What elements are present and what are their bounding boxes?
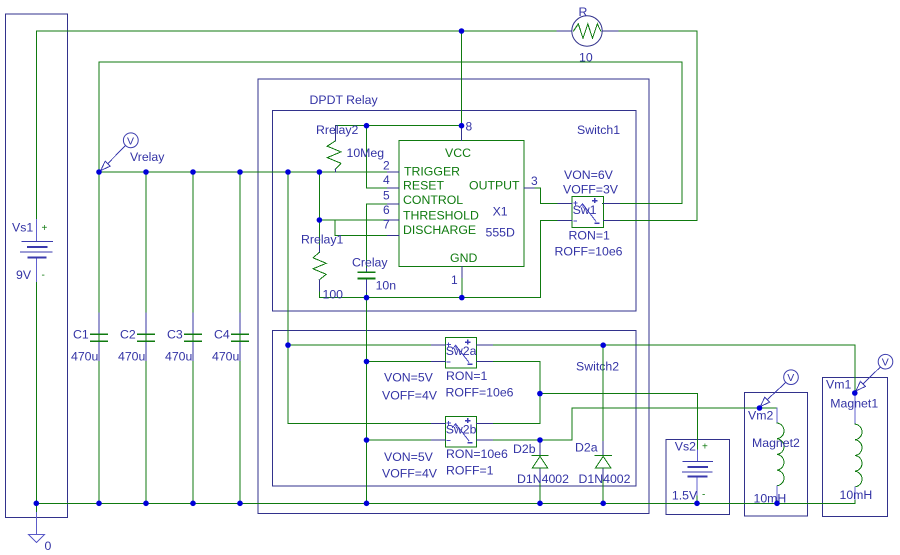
svg-text:ROFF=10e6: ROFF=10e6 xyxy=(446,385,514,399)
wire R right to Sw1 minus xyxy=(618,31,697,220)
wire main ground rail xyxy=(36,502,855,504)
svg-text:ROFF=1: ROFF=1 xyxy=(446,464,494,478)
junction ground D2a xyxy=(600,501,606,507)
svg-text:9V: 9V xyxy=(16,268,32,282)
svg-text:10n: 10n xyxy=(376,279,397,293)
node Vrelay xyxy=(96,169,102,175)
svg-text:GND: GND xyxy=(450,251,477,265)
block box Switch1 xyxy=(272,111,636,312)
junction ground C3 xyxy=(190,501,196,507)
junction ground relay column xyxy=(364,501,370,507)
block box Switch2 xyxy=(272,331,636,487)
svg-text:VCC: VCC xyxy=(445,146,471,160)
svg-text:D2a: D2a xyxy=(575,441,598,455)
svg-text:X1: X1 xyxy=(493,205,508,219)
block box Magnet1 xyxy=(823,378,888,517)
junction VCC reset tie xyxy=(364,123,370,129)
junction ground D2b xyxy=(537,501,543,507)
junction Sw2a input xyxy=(285,342,291,348)
wire output to Sw1 xyxy=(534,188,558,204)
wire C1 branch xyxy=(98,172,100,503)
wire reset tie xyxy=(367,126,388,188)
svg-text:D2b: D2b xyxy=(513,442,536,456)
svg-text:TRIGGER: TRIGGER xyxy=(404,165,460,179)
wire D2b to ground rail xyxy=(539,479,541,503)
capacitor Crelay xyxy=(352,255,396,292)
block box Vs1 xyxy=(6,14,68,518)
wire Vm2 probe to coil xyxy=(760,407,778,409)
wire Sw2a minus down xyxy=(493,362,540,394)
probe Vm2 xyxy=(760,370,798,407)
junction VCC pin8 xyxy=(459,123,465,129)
svg-text:Vs1: Vs1 xyxy=(12,221,33,235)
wire Vs1+ top rail xyxy=(37,31,462,220)
capacitor C4 xyxy=(212,313,248,364)
block box Magnet2 xyxy=(745,393,808,517)
wire node to Vs2 plus xyxy=(540,394,697,450)
wire top rail to R xyxy=(462,30,558,32)
svg-text:D1N4002: D1N4002 xyxy=(579,472,631,486)
svg-text:10Meg: 10Meg xyxy=(347,146,385,160)
block box Vs2 xyxy=(666,440,730,515)
capacitor C3 xyxy=(165,313,201,364)
svg-text:1.5V: 1.5V xyxy=(672,489,698,503)
wire Sw2b control minus xyxy=(367,439,432,441)
wire Sw1 plus feedback to Vrelay rail xyxy=(99,62,682,204)
probe Vm1 xyxy=(856,354,893,390)
svg-text:VOFF=4V: VOFF=4V xyxy=(382,389,438,403)
block box DPDT Relay xyxy=(258,79,649,513)
wire Crelay bottom to main ground xyxy=(366,292,368,504)
svg-text:Crelay: Crelay xyxy=(352,255,388,269)
wire trigger node down to threshold xyxy=(318,172,320,220)
resistor Rrelay2 xyxy=(334,126,336,141)
ground 0 xyxy=(35,503,37,512)
svg-text:R: R xyxy=(579,5,588,19)
inductor Magnet2 xyxy=(748,408,800,506)
svg-text:C1: C1 xyxy=(73,328,89,342)
wire Vs2 bottom xyxy=(696,495,698,503)
junction ground C1 xyxy=(96,501,102,507)
wire D2b node to Magnet2 xyxy=(540,408,760,440)
wire D2a to ground rail xyxy=(602,479,604,503)
junction ground Vs2 xyxy=(694,501,700,507)
svg-text:OUTPUT: OUTPUT xyxy=(469,179,520,193)
wire Magnet2 coil bottom xyxy=(776,500,778,504)
svg-text:THRESHOLD: THRESHOLD xyxy=(403,209,479,223)
node Vm2 xyxy=(757,405,763,411)
junction D2a xyxy=(600,342,606,348)
junction Sw2b minus xyxy=(364,437,370,443)
svg-text:-: - xyxy=(702,490,705,501)
svg-text:100: 100 xyxy=(323,288,344,302)
wire Vrelay rail xyxy=(99,171,387,173)
battery Vs2 xyxy=(672,440,713,503)
switch Sw1 xyxy=(558,197,619,228)
svg-text:8: 8 xyxy=(466,120,473,134)
wire node to Sw2b plus xyxy=(493,394,540,424)
svg-text:VOFF=3V: VOFF=3V xyxy=(563,183,619,197)
svg-text:10mH: 10mH xyxy=(840,488,873,502)
svg-text:Switch1: Switch1 xyxy=(577,123,620,137)
wire Sw2a control minus xyxy=(367,361,432,363)
op-amp U1 555 timer X1 box xyxy=(399,141,524,267)
resistor R xyxy=(557,30,572,32)
svg-text:DISCHARGE: DISCHARGE xyxy=(403,223,476,237)
svg-text:C4: C4 xyxy=(214,328,230,342)
junction top rail / R / pin8 xyxy=(459,28,465,34)
svg-text:+: + xyxy=(702,442,708,453)
battery Vs1 xyxy=(36,220,38,282)
wire Sw2a plus to Magnet1 xyxy=(493,345,855,393)
wire pin1 to rail xyxy=(461,278,463,298)
pin stubs 555 xyxy=(387,126,534,278)
junction ground C2 xyxy=(143,501,149,507)
wire Magnet1 feed xyxy=(854,393,856,396)
svg-text:7: 7 xyxy=(383,218,390,232)
svg-text:10mH: 10mH xyxy=(754,492,787,506)
svg-text:4: 4 xyxy=(383,173,390,187)
svg-text:470u: 470u xyxy=(118,350,146,364)
node Vm1 xyxy=(852,390,858,396)
wire C3 branch xyxy=(192,172,194,503)
junction D2b xyxy=(537,437,543,443)
svg-text:6: 6 xyxy=(383,203,390,217)
svg-text:CONTROL: CONTROL xyxy=(403,193,463,207)
junction ground C4 xyxy=(237,501,243,507)
svg-text:10: 10 xyxy=(579,51,593,65)
wire Sw2a input xyxy=(288,344,431,346)
svg-text:Rrelay1: Rrelay1 xyxy=(301,233,344,247)
svg-text:3: 3 xyxy=(531,174,538,188)
inductor Magnet1 xyxy=(826,378,878,503)
wire D2a branch xyxy=(602,345,604,441)
svg-text:C3: C3 xyxy=(167,328,183,342)
svg-text:VON=6V: VON=6V xyxy=(564,168,614,182)
junction Crelay ground xyxy=(364,295,370,301)
svg-text:+: + xyxy=(42,223,48,234)
diode D2b xyxy=(513,440,569,486)
junction rail Rrelay1 xyxy=(317,169,323,175)
switch Sw2a xyxy=(431,338,492,369)
svg-text:Vrelay: Vrelay xyxy=(130,150,165,164)
junction rail C2 xyxy=(143,169,149,175)
svg-text:-: - xyxy=(42,270,45,281)
wire VCC pin8 net xyxy=(335,125,461,127)
svg-text:Vm2: Vm2 xyxy=(748,409,773,423)
svg-text:Rrelay2: Rrelay2 xyxy=(316,123,359,137)
svg-text:RON=1: RON=1 xyxy=(446,369,488,383)
svg-text:VON=5V: VON=5V xyxy=(384,450,434,464)
svg-text:VON=5V: VON=5V xyxy=(384,371,434,385)
junction Vs2 feed xyxy=(537,391,543,397)
svg-text:1: 1 xyxy=(451,273,458,287)
junction ground Magnet2 xyxy=(774,501,780,507)
wire control to Crelay xyxy=(367,203,388,205)
svg-text:C2: C2 xyxy=(120,328,136,342)
switch Sw2b xyxy=(431,416,492,447)
svg-text:RESET: RESET xyxy=(403,179,444,193)
junction Sw2a minus xyxy=(364,359,370,365)
svg-text:470u: 470u xyxy=(212,350,240,364)
resistor Rrelay1 xyxy=(318,220,320,246)
junction rail to Sw2 inputs xyxy=(285,169,291,175)
wire relay ground rail xyxy=(319,220,558,297)
wire Sw2b minus to D2b xyxy=(493,439,540,441)
svg-text:RON=1: RON=1 xyxy=(569,229,611,243)
junction rail C4 xyxy=(237,169,243,175)
junction threshold xyxy=(317,217,323,223)
wire rail to Sw2 inputs xyxy=(288,172,431,424)
svg-text:DPDT Relay: DPDT Relay xyxy=(310,93,379,107)
svg-text:2: 2 xyxy=(383,159,390,173)
wire threshold to discharge jumper xyxy=(335,220,387,235)
svg-text:V: V xyxy=(127,136,134,148)
svg-text:V: V xyxy=(787,372,794,384)
junction pin1 ground xyxy=(459,295,465,301)
svg-text:V: V xyxy=(882,357,889,369)
svg-text:Sw2a: Sw2a xyxy=(446,344,477,358)
svg-text:RON=10e6: RON=10e6 xyxy=(446,447,508,461)
diode D2a xyxy=(575,441,631,487)
svg-text:Sw1: Sw1 xyxy=(573,203,597,217)
svg-text:5: 5 xyxy=(383,189,390,203)
capacitor C1 xyxy=(71,313,107,364)
wire C4 branch xyxy=(239,172,241,503)
wire pin8 vertical xyxy=(461,31,463,126)
svg-text:0: 0 xyxy=(45,539,52,553)
probe Vrelay xyxy=(101,133,165,171)
junction ground rail Vs1 xyxy=(34,501,40,507)
svg-text:ROFF=10e6: ROFF=10e6 xyxy=(555,245,623,259)
svg-text:Switch2: Switch2 xyxy=(576,360,619,374)
svg-text:VOFF=4V: VOFF=4V xyxy=(382,467,438,481)
svg-text:Magnet1: Magnet1 xyxy=(830,397,878,411)
svg-text:Vs2: Vs2 xyxy=(675,440,696,454)
capacitor C2 xyxy=(118,313,154,364)
svg-text:470u: 470u xyxy=(71,350,99,364)
svg-text:Magnet2: Magnet2 xyxy=(752,436,800,450)
svg-text:Vm1: Vm1 xyxy=(826,378,851,392)
wire Magnet1 coil bottom xyxy=(854,500,856,504)
svg-text:D1N4002: D1N4002 xyxy=(517,472,569,486)
svg-text:Sw2b: Sw2b xyxy=(446,423,477,437)
svg-text:555D: 555D xyxy=(486,226,516,240)
wire Vs1 minus down xyxy=(36,282,38,504)
junction rail C3 xyxy=(190,169,196,175)
svg-text:470u: 470u xyxy=(165,350,193,364)
wire C2 branch xyxy=(145,172,147,503)
wire threshold xyxy=(319,219,387,221)
